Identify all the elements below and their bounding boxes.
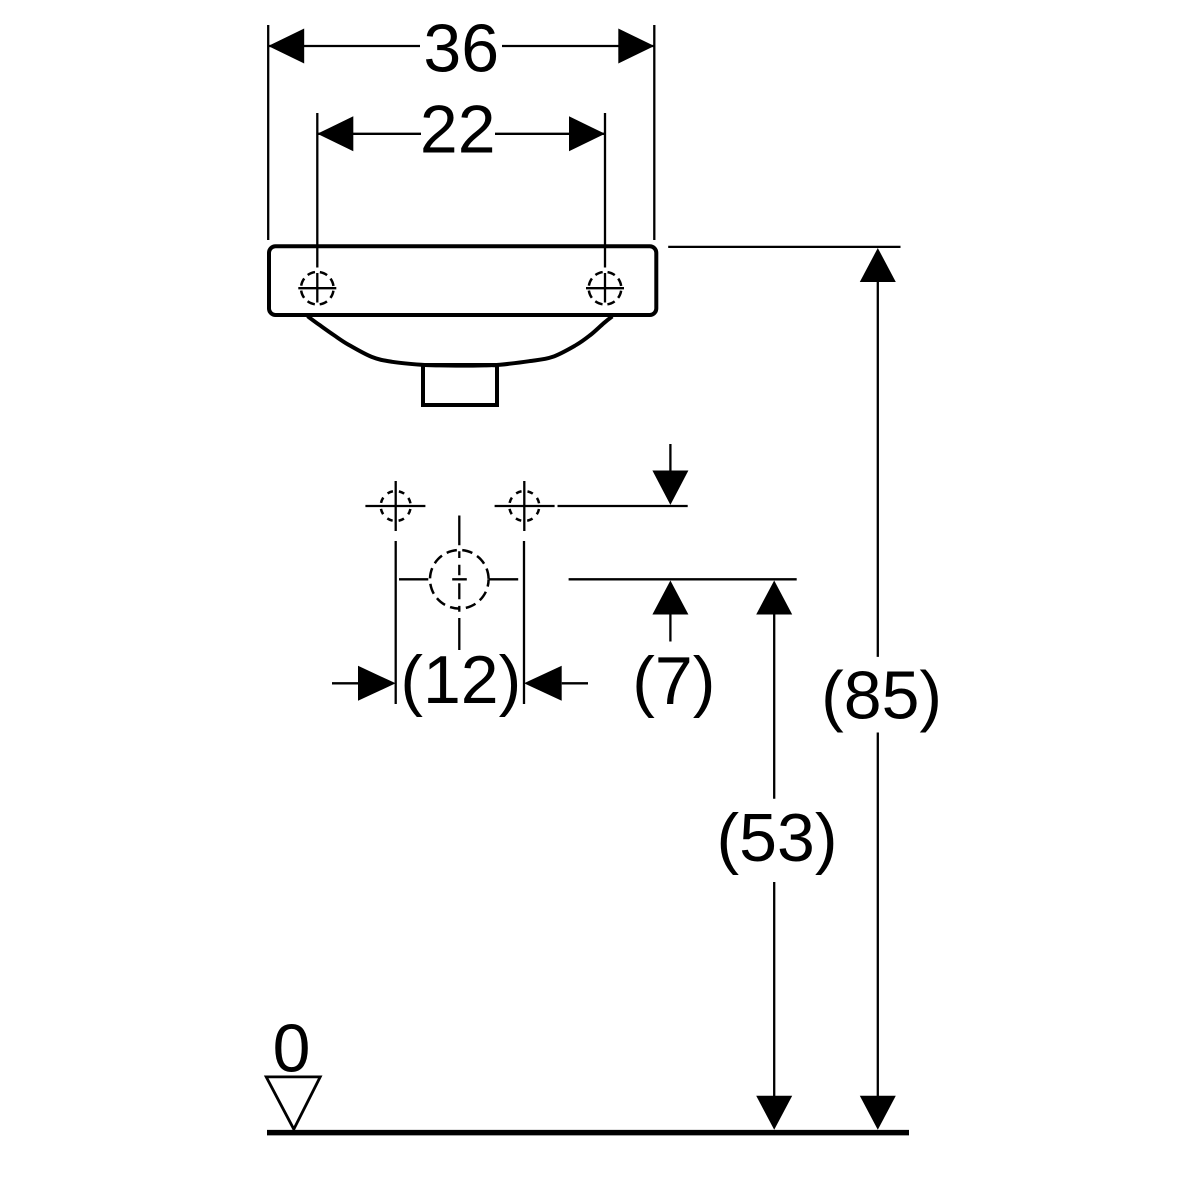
svg-text:0: 0	[273, 1010, 311, 1086]
svg-text:(7): (7)	[632, 643, 715, 719]
svg-text:36: 36	[423, 11, 499, 87]
svg-text:(12): (12)	[400, 642, 521, 718]
svg-text:(85): (85)	[821, 658, 942, 734]
svg-text:22: 22	[420, 91, 496, 167]
svg-text:(53): (53)	[717, 800, 838, 876]
